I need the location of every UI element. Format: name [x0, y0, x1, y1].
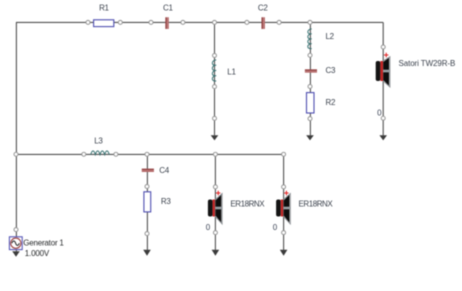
svg-text:0: 0	[206, 223, 211, 232]
svg-text:R1: R1	[99, 4, 109, 13]
svg-text:L3: L3	[94, 137, 103, 146]
svg-text:0: 0	[377, 108, 382, 117]
svg-text:R3: R3	[161, 197, 171, 206]
svg-text:L1: L1	[227, 67, 236, 76]
svg-text:C3: C3	[326, 66, 336, 75]
svg-text:C2: C2	[258, 3, 268, 12]
svg-text:0: 0	[273, 223, 278, 232]
svg-text:C4: C4	[159, 166, 169, 175]
svg-text:ER18RNX: ER18RNX	[299, 199, 334, 208]
svg-text:ER18RNX: ER18RNX	[230, 199, 265, 208]
svg-text:Generator 1: Generator 1	[23, 239, 64, 248]
svg-text:1.000V: 1.000V	[25, 249, 50, 258]
svg-text:Satori TW29R-B: Satori TW29R-B	[399, 59, 456, 68]
svg-text:L2: L2	[326, 32, 335, 41]
svg-text:R2: R2	[326, 98, 336, 107]
svg-text:C1: C1	[163, 3, 173, 12]
